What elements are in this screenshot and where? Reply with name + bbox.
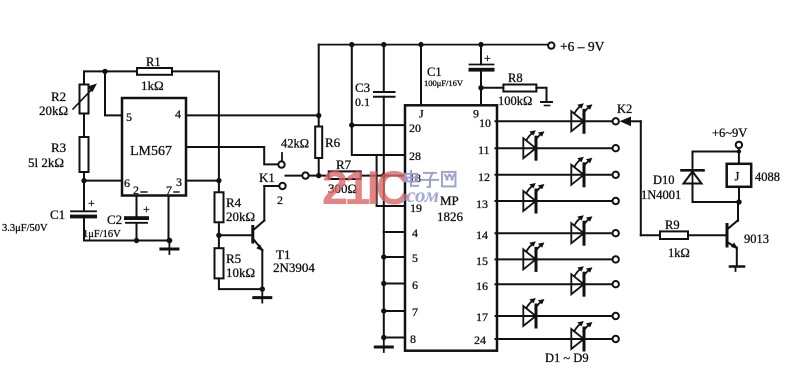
resistor R2 potentiometer: [39, 84, 97, 119]
svg-text:R5: R5: [226, 251, 241, 266]
wire Q2 collector up: [737, 202, 739, 221]
pin 17 label: [476, 310, 488, 324]
ground T1 emitter: [254, 289, 271, 303]
wire pin 11 row: [496, 147, 613, 149]
terminal row 24: [613, 336, 619, 342]
ground Q2 emitter: [730, 267, 744, 272]
svg-text:6: 6: [124, 176, 130, 190]
wire C1 to bottom rail: [83, 218, 85, 240]
terminal +6~9V relay supply: [712, 126, 747, 148]
svg-text:5: 5: [126, 110, 132, 124]
svg-text:42kΩ: 42kΩ: [281, 137, 309, 151]
wire K1 lower contact: [264, 185, 279, 187]
led D4: [523, 183, 544, 212]
svg-text:+6~9V: +6~9V: [712, 126, 747, 140]
svg-text:R6: R6: [325, 135, 341, 150]
wire R2 to R3: [83, 114, 85, 138]
wire V3 rail to C3: [381, 42, 386, 92]
pin 9 label: [473, 107, 479, 121]
svg-text:6: 6: [412, 278, 418, 292]
wire pin 8 stub bus: [381, 335, 405, 340]
switch K1 arm and pole: [259, 170, 309, 207]
svg-text:20: 20: [409, 121, 421, 135]
ground bus pins 4-8: [375, 339, 392, 353]
svg-text:C2: C2: [107, 212, 122, 227]
led D2: [523, 130, 544, 159]
wire node B down to C1: [83, 181, 85, 211]
wire pin 6 stub bus: [381, 281, 405, 286]
resistor R3: [28, 137, 89, 172]
terminal row 12: [613, 172, 619, 178]
svg-text:5l 2kΩ: 5l 2kΩ: [28, 155, 64, 170]
node F junction R6 bottom: [316, 173, 321, 178]
capacitor C3: [355, 80, 395, 109]
svg-text:+: +: [143, 202, 150, 216]
led D6: [523, 241, 544, 270]
pin J label top: [419, 107, 424, 121]
svg-text:C1: C1: [427, 65, 442, 79]
wire pin 15 row: [496, 258, 613, 260]
terminal row 16: [613, 281, 619, 287]
svg-text:MP: MP: [440, 193, 459, 208]
resistor R9: [641, 218, 726, 260]
wire top supply rail: [319, 44, 548, 46]
svg-text:D10: D10: [653, 173, 675, 187]
wire pin 16 row: [496, 283, 613, 285]
svg-text:1826: 1826: [437, 209, 464, 224]
wire supply to relay top: [737, 148, 741, 164]
svg-text:R4: R4: [226, 195, 242, 210]
svg-text:R9: R9: [665, 218, 680, 232]
pin 6 label bus: [412, 278, 418, 292]
node D junction pin3 R1 R4: [216, 178, 221, 183]
svg-text:D1 ~ D9: D1 ~ D9: [545, 351, 589, 365]
svg-text:1kΩ: 1kΩ: [668, 246, 690, 260]
svg-text:12: 12: [478, 170, 490, 184]
pin 7 label bus: [412, 305, 418, 319]
wire relay bottom to node K: [738, 187, 740, 202]
pin 8 label bus: [410, 332, 416, 346]
wire V3 C3 to node H: [383, 97, 385, 232]
capacitor C2 electrolytic: [83, 202, 150, 240]
wire pin 5 stub bus: [381, 254, 405, 259]
svg-text:17: 17: [476, 310, 488, 324]
resistor R1: [137, 55, 172, 93]
pin 5 label bus: [412, 251, 418, 265]
wire C1 to pin 9: [480, 72, 482, 106]
node C junction ground rail: [167, 238, 173, 244]
svg-text:+6 – 9V: +6 – 9V: [560, 39, 605, 54]
wire pin 2 to C2: [136, 196, 138, 217]
svg-text:20kΩ: 20kΩ: [39, 103, 68, 118]
pin 28 label: [409, 149, 421, 163]
label D1-D9: [545, 351, 589, 365]
wire R4 to node E: [218, 222, 220, 248]
switch K1 upper contact: [278, 153, 284, 168]
svg-text:4088: 4088: [755, 170, 780, 184]
pin 7 label: [166, 183, 179, 197]
wire K1 pole to node F: [309, 175, 329, 177]
wire pin 20 stub: [352, 124, 405, 126]
wire R3 to node B: [83, 172, 85, 182]
relay J 4088: [727, 164, 780, 187]
wire Q2 emitter down: [736, 248, 738, 266]
wire LM567 pin 4 line: [186, 114, 319, 116]
wire node E to T1 base: [219, 234, 252, 236]
svg-text:C3: C3: [355, 80, 370, 95]
IC U2 MP1826: [405, 105, 497, 350]
terminal row 10: [613, 118, 619, 124]
wire T1 collector up to K1: [263, 186, 265, 221]
pin 5 label: [126, 110, 132, 124]
svg-text:+: +: [484, 51, 491, 65]
svg-text:LM567: LM567: [130, 144, 172, 159]
pin 12 label: [478, 170, 490, 184]
wire pins 4-8 ground bus: [384, 232, 405, 338]
svg-text:R8: R8: [508, 71, 523, 85]
wire pin 7 down: [168, 196, 170, 241]
resistor R4: [215, 192, 256, 224]
led D9: [571, 321, 592, 350]
pin 19 label: [410, 201, 422, 215]
svg-text:100μF/16V: 100μF/16V: [424, 78, 464, 88]
svg-text:4: 4: [175, 107, 181, 121]
pin 6 label: [124, 176, 130, 190]
pin 4 label: [412, 226, 418, 240]
pin 2 label: [133, 183, 147, 197]
svg-text:J: J: [735, 170, 740, 184]
wire pin 13 row: [496, 200, 613, 202]
op-amp U1 LM567 tone decoder: [122, 98, 186, 196]
svg-text:2: 2: [277, 193, 283, 207]
terminal +6-9V: [548, 39, 605, 54]
svg-text:J: J: [419, 107, 424, 121]
wire D10 to node K: [693, 167, 740, 203]
wire pin 7 stub bus: [381, 308, 405, 313]
wire pin 12 row: [496, 174, 613, 176]
wire R5 to emitter ground: [219, 278, 262, 289]
node B junction pin6: [81, 178, 86, 183]
wire K2 down to R9: [640, 121, 642, 235]
watermark dianziwang blue characters: [405, 171, 456, 187]
wire bottom rail left: [84, 240, 169, 242]
wire V2 rail to pin28 corner: [349, 42, 405, 155]
pin 18 label: [409, 171, 421, 185]
wire node B to pin 6: [84, 180, 122, 182]
svg-text:13: 13: [476, 197, 488, 211]
wire pin 24 row: [496, 338, 613, 340]
capacitor C1 electrolytic main: [424, 42, 495, 88]
svg-text:3.3μF/50V: 3.3μF/50V: [2, 223, 48, 234]
node A junction pin5 feed: [102, 69, 107, 74]
resistor R5: [215, 248, 256, 280]
svg-text:10: 10: [479, 116, 491, 130]
diode D10 1N4001: [641, 170, 704, 202]
resistor R7: [328, 157, 384, 196]
wire C2 to bottom rail: [134, 223, 139, 243]
node H junction R7 right: [381, 173, 386, 178]
pin 3 label: [176, 175, 182, 189]
svg-text:9013: 9013: [744, 232, 769, 246]
svg-text:100kΩ: 100kΩ: [498, 94, 532, 108]
svg-text:R2: R2: [51, 89, 66, 104]
svg-text:20kΩ: 20kΩ: [226, 209, 255, 224]
svg-text:2N3904: 2N3904: [273, 260, 315, 275]
ground left: [161, 241, 178, 255]
node E junction base: [216, 233, 221, 238]
terminal row 17: [613, 313, 619, 319]
svg-text:3: 3: [176, 175, 182, 189]
pin 16 label: [476, 279, 488, 293]
pin 13 label: [476, 197, 488, 211]
terminal row 13: [613, 198, 619, 204]
wire node D to R4: [218, 181, 220, 193]
wire T1 emitter down: [260, 250, 265, 292]
pin 10 label: [479, 116, 491, 130]
switch K1 lower contact: [279, 183, 285, 189]
wire pin 19 stub: [377, 155, 405, 206]
wire pin 14 row: [496, 232, 613, 234]
svg-text:1μF/16V: 1μF/16V: [83, 229, 121, 240]
svg-text:1N4001: 1N4001: [641, 188, 681, 202]
watermark com blue script: [401, 183, 439, 207]
svg-text:1kΩ: 1kΩ: [141, 78, 164, 93]
svg-text:.сом: .сом: [401, 183, 439, 207]
wire R8 right foot: [536, 88, 552, 106]
svg-text:R1: R1: [146, 55, 161, 69]
wire pin 3 stub: [186, 180, 219, 182]
pin 15 label: [476, 254, 488, 268]
led D1: [571, 103, 592, 132]
svg-text:8: 8: [410, 332, 416, 346]
pin 14 label: [476, 228, 488, 242]
node G junction pin4 line on V1: [316, 113, 321, 118]
switch K2 arrow: [617, 102, 641, 126]
led D7: [571, 266, 592, 295]
svg-text:7: 7: [412, 305, 418, 319]
wire branch to D10: [693, 152, 739, 167]
resistor R8: [481, 71, 536, 108]
svg-text:K2: K2: [617, 102, 632, 116]
capacitor C1 electrolytic left: [2, 196, 97, 234]
wire top-left feedback rail: [84, 71, 219, 180]
led D5: [571, 215, 592, 244]
wire to pin 5: [105, 71, 122, 115]
wire pin 18 stub: [384, 175, 405, 177]
wire LM567 output pin8: [186, 147, 278, 164]
svg-text:21IC: 21IC: [322, 161, 409, 214]
svg-text:28: 28: [409, 149, 421, 163]
svg-text:14: 14: [476, 228, 488, 242]
terminal row 15: [613, 256, 619, 262]
svg-text:K1: K1: [259, 170, 275, 185]
svg-text:R3: R3: [51, 140, 66, 155]
wire supply pin to IC top: [418, 42, 423, 106]
svg-text:4: 4: [412, 226, 418, 240]
svg-text:10kΩ: 10kΩ: [226, 265, 255, 280]
svg-text:+: +: [88, 196, 95, 210]
watermark 21IC red: [322, 161, 409, 214]
svg-text:5: 5: [412, 251, 418, 265]
svg-text:0.1: 0.1: [355, 95, 370, 109]
svg-text:16: 16: [476, 279, 488, 293]
transistor Q2 9013: [727, 220, 769, 249]
pin 20 label: [409, 121, 421, 135]
node J junction R8 left: [478, 85, 483, 90]
terminal row 11: [613, 145, 619, 151]
resistor R6: [281, 127, 341, 176]
node K junction collector relay D10: [736, 199, 741, 204]
pin 24 label: [474, 333, 486, 347]
wire pin 10 row: [496, 120, 613, 122]
svg-text:C1: C1: [50, 207, 65, 222]
pin 4 label: [175, 107, 181, 121]
transistor T1 2N3904: [253, 221, 316, 276]
svg-text:11: 11: [478, 143, 490, 157]
led D8: [523, 298, 544, 327]
terminal row 14: [613, 230, 619, 236]
svg-text:24: 24: [474, 333, 486, 347]
node I junction pin20 on V2: [349, 122, 354, 127]
wire V1 rail to R6: [318, 45, 320, 127]
led D3: [571, 157, 592, 186]
pin 11 label: [478, 143, 490, 157]
svg-text:15: 15: [476, 254, 488, 268]
wire pin 17 row: [496, 315, 613, 317]
